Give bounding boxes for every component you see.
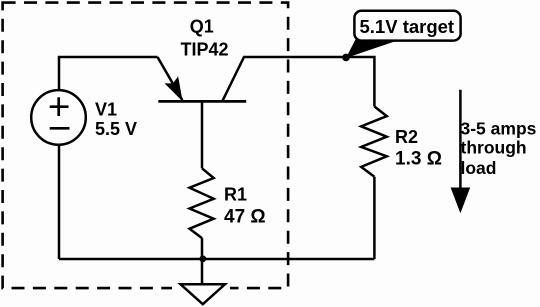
svg-text:5.5 V: 5.5 V — [95, 119, 137, 139]
svg-text:load: load — [461, 158, 497, 178]
svg-text:R1: R1 — [224, 185, 247, 205]
svg-text:47 Ω: 47 Ω — [224, 206, 266, 227]
svg-text:1.3 Ω: 1.3 Ω — [395, 149, 442, 170]
svg-text:V1: V1 — [95, 100, 117, 120]
svg-text:Q1: Q1 — [190, 17, 214, 37]
svg-text:R2: R2 — [395, 127, 418, 147]
svg-text:3-5 amps: 3-5 amps — [461, 119, 537, 139]
svg-text:through: through — [461, 138, 527, 158]
svg-text:TIP42: TIP42 — [180, 40, 228, 60]
svg-text:5.1V target: 5.1V target — [360, 16, 455, 37]
